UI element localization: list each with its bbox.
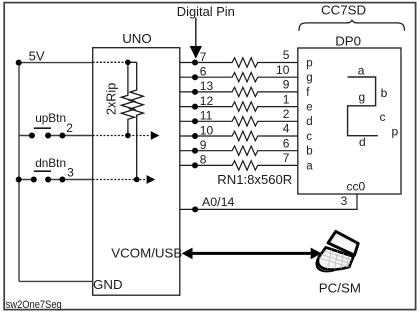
svg-text:p: p	[306, 57, 312, 69]
svg-text:RN1:8x560R: RN1:8x560R	[217, 172, 292, 187]
svg-text:1: 1	[283, 92, 290, 106]
svg-text:p: p	[392, 124, 399, 138]
svg-text:c: c	[306, 131, 312, 143]
svg-text:a: a	[358, 64, 365, 78]
svg-text:5V: 5V	[29, 48, 45, 63]
svg-text:GND: GND	[93, 277, 123, 292]
svg-text:cc0: cc0	[347, 179, 366, 193]
svg-text:8: 8	[200, 153, 207, 167]
svg-text:9: 9	[200, 138, 207, 152]
svg-text:3: 3	[67, 166, 74, 180]
svg-text:12: 12	[200, 94, 214, 108]
svg-text:2xRip: 2xRip	[105, 83, 119, 115]
svg-text:7: 7	[200, 50, 207, 64]
svg-text:6: 6	[200, 65, 207, 79]
svg-text:4: 4	[283, 122, 290, 136]
svg-text:g: g	[359, 90, 366, 104]
svg-text:3: 3	[341, 194, 348, 208]
svg-text:PC/SM: PC/SM	[319, 280, 361, 295]
svg-text:upBtn: upBtn	[35, 111, 66, 125]
svg-text:dnBtn: dnBtn	[35, 156, 66, 170]
svg-text:VCOM/USB: VCOM/USB	[111, 246, 182, 261]
svg-text:7: 7	[283, 151, 290, 165]
svg-text:5: 5	[283, 48, 290, 62]
svg-text:CC7SD: CC7SD	[321, 2, 366, 17]
svg-text:e: e	[306, 102, 312, 114]
svg-text:2: 2	[66, 121, 73, 135]
svg-text:DP0: DP0	[335, 33, 361, 48]
svg-text:A0/14: A0/14	[202, 195, 234, 209]
svg-text:c: c	[380, 110, 386, 124]
svg-text:g: g	[306, 72, 312, 84]
svg-text:10: 10	[200, 123, 214, 137]
svg-text:sw2One7Seg: sw2One7Seg	[6, 299, 62, 311]
svg-text:11: 11	[200, 109, 213, 123]
svg-text:13: 13	[200, 79, 214, 93]
svg-text:10: 10	[276, 63, 290, 77]
svg-text:a: a	[306, 160, 313, 172]
svg-text:6: 6	[283, 136, 290, 150]
svg-text:UNO: UNO	[122, 31, 152, 46]
svg-text:b: b	[381, 86, 388, 100]
svg-text:d: d	[306, 116, 312, 128]
svg-text:b: b	[306, 146, 312, 158]
svg-text:9: 9	[283, 78, 290, 92]
svg-text:d: d	[359, 135, 366, 149]
svg-text:Digital Pin: Digital Pin	[177, 4, 235, 19]
svg-text:2: 2	[283, 107, 290, 121]
